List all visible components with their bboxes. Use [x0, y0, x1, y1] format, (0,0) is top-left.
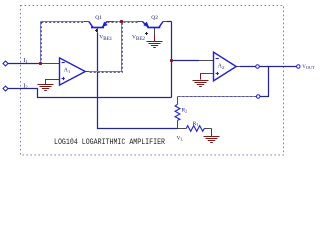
- svg-text:A2: A2: [218, 64, 225, 70]
- svg-text:LOG104 LOGARITHMIC AMPLIFIER: LOG104 LOGARITHMIC AMPLIFIER: [54, 137, 165, 147]
- svg-text:VOUT: VOUT: [302, 65, 315, 70]
- svg-text:I1: I1: [23, 57, 28, 64]
- svg-text:R2: R2: [182, 108, 188, 114]
- svg-text:VL: VL: [177, 136, 184, 142]
- svg-text:Q2: Q2: [151, 15, 158, 21]
- svg-text:Q1: Q1: [95, 15, 102, 21]
- svg-text:A1: A1: [64, 68, 71, 74]
- svg-text:R1: R1: [193, 121, 199, 127]
- svg-text:I2: I2: [23, 82, 28, 89]
